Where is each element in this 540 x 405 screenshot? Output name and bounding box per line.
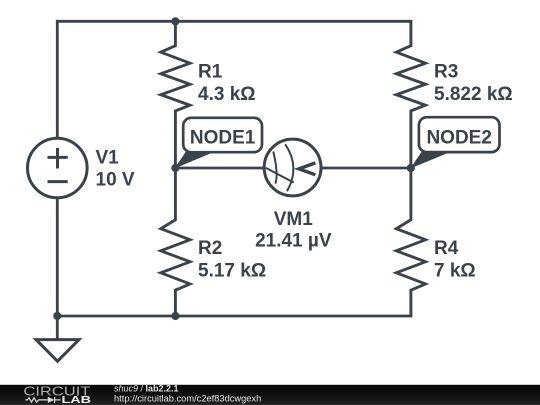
wire left rail lower — [56, 198, 59, 338]
svg-text:R1: R1 — [198, 62, 223, 83]
wire top rail — [57, 20, 411, 23]
svg-text:NODE1: NODE1 — [190, 128, 256, 149]
svg-text:4.3 kΩ: 4.3 kΩ — [198, 84, 256, 105]
svg-text:LAB: LAB — [62, 395, 92, 405]
voltage source V1 — [28, 138, 88, 198]
svg-text:NODE2: NODE2 — [426, 128, 491, 149]
footer bar — [0, 385, 540, 405]
ground — [36, 340, 79, 362]
svg-text:10 V: 10 V — [96, 170, 135, 191]
svg-text:V1: V1 — [96, 147, 120, 168]
resistor R3 — [396, 21, 425, 168]
resistor R4 — [396, 168, 425, 316]
junction dot top — [171, 17, 179, 25]
logo squiggle resistor-diode — [25, 397, 60, 403]
svg-text:VM1: VM1 — [274, 209, 314, 230]
wire bottom rail — [57, 315, 411, 318]
node NODE1 flag — [175, 118, 263, 169]
wire left rail upper — [56, 21, 59, 138]
junction dot NODE1 — [171, 164, 179, 172]
svg-text:21.41 µV: 21.41 µV — [255, 230, 332, 251]
svg-text:5.822 kΩ: 5.822 kΩ — [434, 84, 513, 105]
resistor R2 — [161, 168, 190, 316]
wire NODE1 to VM1 — [175, 167, 264, 170]
svg-text:R2: R2 — [198, 238, 222, 259]
svg-text:7 kΩ: 7 kΩ — [434, 261, 476, 282]
svg-text:shuc9 / lab2.2.1: shuc9 / lab2.2.1 — [114, 384, 179, 394]
node NODE2 flag — [410, 117, 499, 168]
svg-text:5.17 kΩ: 5.17 kΩ — [198, 261, 266, 282]
resistor R1 — [161, 21, 190, 168]
svg-text:R3: R3 — [434, 62, 458, 83]
voltmeter VM1 — [264, 139, 321, 196]
svg-text:http://circuitlab.com/c2ef83dc: http://circuitlab.com/c2ef83dcwgexh — [114, 393, 261, 403]
svg-text:R4: R4 — [434, 238, 459, 259]
junction dot bottom R2 — [171, 312, 179, 320]
wire VM1 to NODE2 — [321, 167, 411, 170]
junction dot NODE2 — [407, 164, 415, 172]
junction dot bottom left — [53, 312, 61, 320]
